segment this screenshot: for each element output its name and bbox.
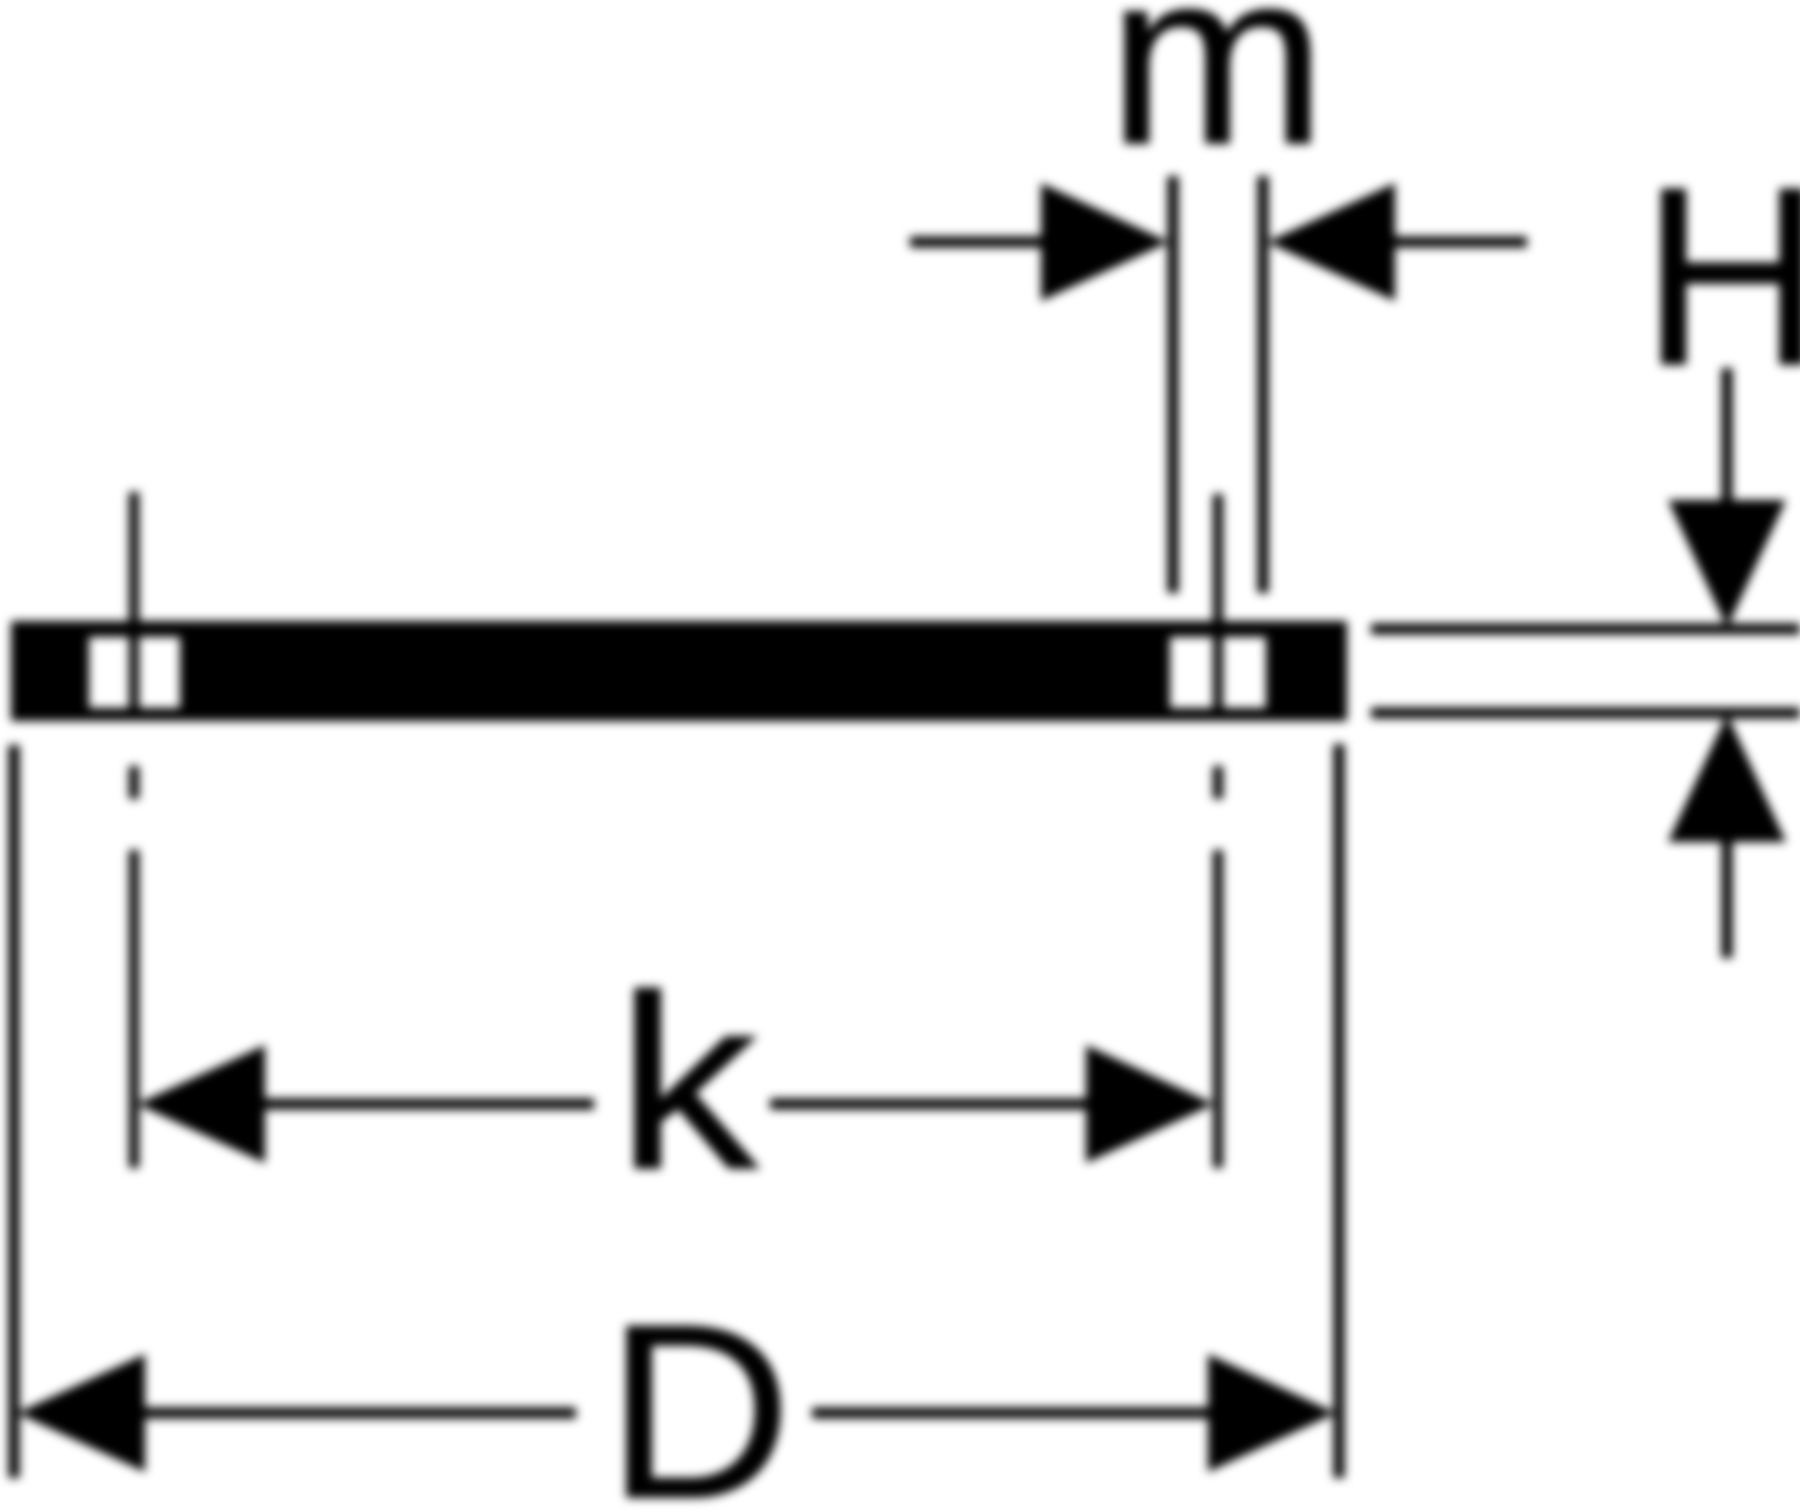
node k arrow left [137, 1045, 265, 1163]
wire H extension line top [1371, 624, 1800, 635]
wire centerline left upper [129, 492, 139, 721]
wire D extension line left [9, 745, 20, 1478]
wire D extension line right [1334, 744, 1345, 1478]
wire m dimension left line [910, 237, 1045, 248]
wire k dimension right line [770, 1099, 1086, 1110]
wire m dimension right line [1395, 237, 1527, 248]
node H arrow up [1668, 714, 1786, 842]
wire k dimension left line [265, 1099, 594, 1110]
wire D dimension left line [145, 1408, 576, 1419]
node m arrow right [1267, 183, 1395, 301]
wire H dimension upper line [1722, 368, 1733, 501]
wire centerline right dash [1213, 766, 1223, 799]
wire m extension line left [1168, 176, 1179, 593]
wire centerline left dash [129, 766, 139, 799]
node m arrow left [1041, 183, 1169, 301]
svg-text:H: H [1641, 134, 1800, 418]
wire centerline right upper [1213, 494, 1223, 721]
wire H dimension lower line [1722, 842, 1733, 958]
node D arrow left [17, 1354, 145, 1472]
wire H extension line bottom [1371, 708, 1800, 719]
wire D dimension right line [812, 1408, 1208, 1419]
wire centerline right lower [1213, 850, 1223, 1168]
node H arrow down [1668, 500, 1786, 628]
svg-text:m: m [1107, 0, 1327, 196]
node D arrow right [1208, 1354, 1336, 1472]
node bolt hole left [89, 637, 180, 708]
svg-text:D: D [606, 1272, 792, 1512]
node gasket bar [11, 621, 1347, 721]
node k arrow right [1086, 1045, 1214, 1163]
wire centerline left lower [129, 850, 139, 1168]
svg-text:k: k [616, 943, 759, 1221]
wire m extension line right [1258, 176, 1269, 593]
node bolt hole right [1170, 637, 1266, 708]
